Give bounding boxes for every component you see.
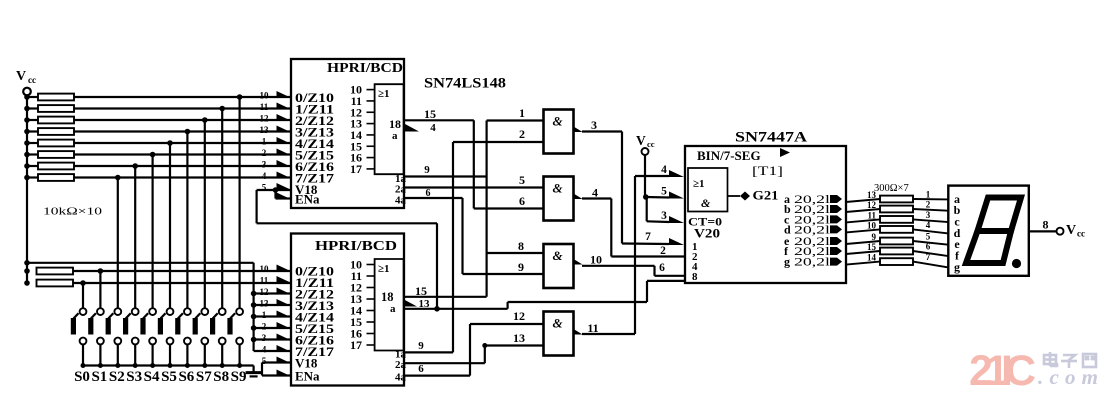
IC U1 SN74LS148 outline <box>291 59 404 208</box>
svg-text:1: 1 <box>262 310 267 320</box>
wire G1 output <box>582 130 622 132</box>
wire U1 2a to G2.1 <box>405 186 544 188</box>
svg-text:V: V <box>1066 223 1076 238</box>
U3 output d flag <box>830 225 842 233</box>
node pullup junction <box>251 325 257 331</box>
svg-text:15: 15 <box>424 107 436 121</box>
pin U1 V18 wedge <box>277 183 292 190</box>
wire p4 riser from G4 <box>634 176 636 334</box>
svg-text:9: 9 <box>872 232 877 242</box>
resistor Rs3 (300) <box>880 216 913 223</box>
svg-text:20,2l: 20,2l <box>794 255 831 269</box>
pin U3 5 wedge <box>669 192 684 199</box>
svg-text:6: 6 <box>926 242 931 252</box>
pin U1 6/Z16 wedge <box>277 160 292 167</box>
svg-text:11: 11 <box>587 321 598 335</box>
node tap2 <box>219 106 225 112</box>
svg-text:S7: S7 <box>196 369 212 385</box>
node S4 bus junction <box>150 363 155 368</box>
wire U2 ENa hook <box>262 374 291 376</box>
resistor R5 (10k) <box>27 142 38 144</box>
IC U3 SN7447A outline <box>685 146 846 283</box>
wire ENa loop down <box>256 190 258 223</box>
svg-text:11: 11 <box>260 276 269 286</box>
pin U3 4 wedge <box>669 170 684 177</box>
wire U2 18 output <box>405 296 487 298</box>
resistor Rs6 (300) <box>880 248 913 255</box>
svg-text:&: & <box>553 114 563 129</box>
pin U1 1/Z11 wedge <box>277 103 292 110</box>
svg-text:S5: S5 <box>161 369 177 385</box>
pin U2 5/Z15 wedge <box>277 322 292 329</box>
svg-text:13: 13 <box>260 125 270 135</box>
U3 output f flag <box>830 247 842 255</box>
node tap8 <box>115 175 121 181</box>
svg-text:18: 18 <box>389 117 401 131</box>
svg-text:V: V <box>636 133 646 148</box>
wire 4a down <box>461 198 463 274</box>
svg-text:SN7447A: SN7447A <box>735 130 808 146</box>
pin U1 3/Z13 wedge <box>277 126 292 133</box>
AND gate G2 body <box>544 177 574 221</box>
wire tap3 to switch S7 <box>204 120 206 308</box>
wire tap5 to switch S5 <box>169 143 171 308</box>
svg-text:BIN/7-SEG: BIN/7-SEG <box>697 148 761 163</box>
node tap5 <box>167 140 173 146</box>
svg-text:S2: S2 <box>109 369 125 385</box>
node S2 bus junction <box>115 363 120 368</box>
digit 8 lower loop (segments g,c,d,e) <box>966 231 1011 263</box>
wire 1a to G1.1 <box>487 119 544 121</box>
pin U2 ENa wedge <box>277 370 292 377</box>
wire Vcc left bus <box>26 95 28 286</box>
svg-text:1: 1 <box>262 137 267 147</box>
svg-text:3: 3 <box>262 160 267 170</box>
svg-text:S8: S8 <box>213 369 229 385</box>
wire tap4 to switch S6 <box>186 132 188 309</box>
svg-text:6: 6 <box>519 194 525 208</box>
U3 output c flag <box>830 215 842 223</box>
wire resistor to display f <box>913 251 948 256</box>
svg-text:5: 5 <box>661 186 667 198</box>
svg-text:a: a <box>390 303 396 315</box>
wire resistor to display d <box>913 229 948 233</box>
svg-text:4: 4 <box>262 171 267 181</box>
wire resistor to display b <box>913 209 948 211</box>
svg-text:&: & <box>553 181 563 196</box>
wire U2-a jog <box>507 302 509 309</box>
pin U1 7/Z17 wedge <box>277 172 292 179</box>
wire riser x453 <box>452 142 454 352</box>
resistor R10 (10k) <box>37 280 74 287</box>
svg-text:a: a <box>392 130 398 142</box>
wire R4 to encoder input 3 <box>74 130 291 132</box>
svg-text:≥1: ≥1 <box>693 178 705 190</box>
node pullup junction <box>251 314 257 320</box>
wire 4a to G3.2 <box>463 273 544 275</box>
pin U1 4/Z14 wedge <box>277 137 292 144</box>
wire pullup to encoder2 pin <box>254 327 291 329</box>
svg-text:8: 8 <box>518 239 524 253</box>
svg-text:10: 10 <box>260 264 270 274</box>
wire net15 to G2.2 <box>474 207 544 209</box>
wire U2-2a up <box>484 346 486 364</box>
svg-text:cc: cc <box>1077 229 1085 239</box>
pin U1 0/Z10 wedge <box>277 91 292 98</box>
switch S5 <box>167 308 174 315</box>
svg-text:13: 13 <box>513 331 525 345</box>
svg-text:7: 7 <box>645 231 651 243</box>
svg-text:SN74LS148: SN74LS148 <box>424 76 506 92</box>
node bus-R2 <box>24 106 30 112</box>
wire switch common bus <box>83 364 254 366</box>
resistor Rs5 (300) <box>880 238 913 245</box>
wire pullup to encoder2 pin <box>254 338 291 340</box>
svg-text:11: 11 <box>867 210 876 220</box>
switch S4 <box>149 308 156 315</box>
wire pullup to encoder2 pin <box>254 315 291 317</box>
wire resistor to display e <box>913 241 948 245</box>
node S0 bus junction <box>81 363 86 368</box>
AND gate G2 output wedge <box>574 194 583 200</box>
wire U2 2a output <box>405 362 485 364</box>
wire G2out down <box>610 199 612 257</box>
wire U3 g to resistor <box>846 262 880 265</box>
svg-text:10: 10 <box>260 91 270 101</box>
svg-text:ENa: ENa <box>295 369 320 384</box>
switch S7 <box>201 308 208 315</box>
svg-text:&: & <box>701 196 711 210</box>
U3 output e flag <box>830 237 842 245</box>
svg-text:17: 17 <box>350 338 362 352</box>
wire Vcc middle down <box>644 155 646 197</box>
node bus-R5 <box>24 140 30 146</box>
svg-text:2a: 2a <box>395 359 407 371</box>
wire tap1 to switch S9 <box>239 97 241 308</box>
wire pullup to encoder2 pin <box>254 304 291 306</box>
wire U3 a to resistor <box>846 199 880 202</box>
wire R8 to encoder input 7 <box>74 176 291 178</box>
svg-text:3: 3 <box>661 210 667 222</box>
node S8 bus junction <box>220 363 225 368</box>
wire U3 d to resistor <box>846 229 880 232</box>
wire G4 output <box>582 333 635 335</box>
wire tap2 to switch S8 <box>221 109 223 309</box>
resistor R8 (10k) <box>27 176 38 178</box>
svg-text:2: 2 <box>519 127 525 141</box>
svg-text:&: & <box>553 316 563 331</box>
svg-text:&: & <box>553 248 563 263</box>
wire encoder2 pullup bus vertical <box>253 263 255 351</box>
U3 title flag <box>780 148 790 157</box>
svg-text:4: 4 <box>926 220 931 230</box>
svg-text:2: 2 <box>262 322 267 332</box>
wire U2-a across <box>508 301 647 303</box>
wire U2 V18 hook <box>262 361 291 363</box>
wire p3 <box>647 220 669 223</box>
svg-text:8: 8 <box>692 271 698 283</box>
node tap S1 <box>98 268 104 274</box>
svg-text:3: 3 <box>262 333 267 343</box>
node bus-R4 <box>24 129 30 135</box>
resistor Rs4 (300) <box>880 226 913 233</box>
resistor R9 (10k) <box>37 268 74 275</box>
wire R9 to encoder2 input 0 <box>73 270 291 272</box>
switch S2 <box>114 308 121 315</box>
svg-text:≥1: ≥1 <box>378 88 390 100</box>
node S6 bus junction <box>185 363 190 368</box>
node tap6 <box>150 152 156 158</box>
resistor Rs2 (300) <box>880 206 913 213</box>
switch S8 <box>219 308 226 315</box>
wire riser x486 <box>486 121 488 297</box>
svg-text:4a: 4a <box>395 372 407 384</box>
node bus-Vcc-row <box>24 260 30 266</box>
wire U2 4a output <box>405 375 470 377</box>
node bus-R9 <box>24 268 30 274</box>
wire pullup to encoder2 pin <box>254 350 291 352</box>
pin U3 3 wedge <box>669 216 684 223</box>
svg-text:6: 6 <box>426 188 431 199</box>
wire U3 c to resistor <box>846 219 880 222</box>
svg-text:[T1]: [T1] <box>752 164 783 178</box>
svg-text:5: 5 <box>926 232 931 242</box>
svg-text:10: 10 <box>590 253 602 267</box>
svg-text:2: 2 <box>660 245 666 257</box>
node bus-R7 <box>24 163 30 169</box>
wire U1 V18 feed <box>257 189 291 191</box>
svg-text:S9: S9 <box>231 369 247 385</box>
svg-text:15: 15 <box>415 284 427 298</box>
wire to G3.1 <box>487 252 544 254</box>
svg-text:4: 4 <box>430 122 436 134</box>
svg-text:9: 9 <box>418 340 424 352</box>
node tap4 <box>185 129 191 135</box>
wire net-a riser <box>646 281 648 302</box>
svg-text:1: 1 <box>519 106 525 120</box>
U1 output 18/a wedge <box>405 124 419 132</box>
pin U2 7/Z17 wedge <box>277 345 292 352</box>
wire R10 to encoder2 input 1 <box>73 282 291 284</box>
wire to pin4w <box>655 275 686 277</box>
wire V18 to ENa hook <box>274 190 276 199</box>
wire net15 down <box>473 120 475 208</box>
wire tap7 to switch S3 <box>134 166 136 308</box>
svg-text:9: 9 <box>518 260 524 274</box>
node V18 junction <box>273 187 279 193</box>
wire U1 1a output <box>405 175 487 177</box>
svg-text:12: 12 <box>513 309 525 323</box>
svg-text:14: 14 <box>867 253 877 263</box>
wire U1 4a output <box>405 197 463 199</box>
svg-text:cc: cc <box>28 75 36 85</box>
resistor R1 (10k) <box>27 96 38 98</box>
wire to G1.2 <box>453 141 544 143</box>
svg-text:13: 13 <box>260 299 270 309</box>
svg-text:10kΩ×10: 10kΩ×10 <box>43 206 103 218</box>
U2 priority section inner box <box>375 259 404 351</box>
decimal point <box>1012 259 1021 268</box>
wire Vcc row to encoder2 pullup bus <box>27 262 254 264</box>
wire ENa loop across <box>257 222 437 224</box>
pin U2 2/Z12 wedge <box>277 288 292 295</box>
digit 8 upper loop (segments a,b,g,f) <box>978 198 1022 232</box>
svg-text:17: 17 <box>350 162 362 176</box>
node bus-R1 <box>24 94 30 100</box>
switch S1 <box>97 308 104 315</box>
wire to pin2 <box>611 255 685 257</box>
node S7 bus junction <box>202 363 207 368</box>
svg-text:cc: cc <box>647 139 655 149</box>
wire R6 to encoder input 5 <box>74 153 291 155</box>
wire U3 e to resistor <box>846 241 880 244</box>
svg-text:3: 3 <box>926 210 931 220</box>
wire bus to ground <box>253 366 255 373</box>
wire R2 to encoder input 1 <box>74 107 291 109</box>
svg-text:4: 4 <box>262 345 267 355</box>
wire ENa loop to U2 output net <box>436 223 438 308</box>
wire to G4.2 <box>485 344 544 346</box>
AND gate G3 output wedge <box>574 259 583 265</box>
svg-text:≥1: ≥1 <box>378 263 390 275</box>
resistor R3 (10k) <box>27 119 38 121</box>
svg-text:S1: S1 <box>91 369 107 385</box>
svg-text:4: 4 <box>592 186 598 200</box>
IC U2 SN74LS148 outline <box>291 234 404 386</box>
wire U2 1a output <box>405 351 453 353</box>
switch S0 <box>80 308 87 315</box>
svg-text:HPRI/BCD: HPRI/BCD <box>315 239 397 254</box>
pin U2 6/Z16 wedge <box>277 334 292 341</box>
svg-text:V: V <box>16 69 26 84</box>
wire G1out down <box>621 132 623 244</box>
node pullup junction <box>251 291 257 297</box>
svg-text:V20: V20 <box>694 227 720 241</box>
wire pullup to encoder2 pin <box>254 292 291 294</box>
svg-text:9: 9 <box>424 164 430 176</box>
svg-text:7: 7 <box>926 252 931 262</box>
pin U2 1/Z11 wedge <box>277 276 292 283</box>
wire resistor to display c <box>913 219 948 222</box>
U3 output a flag <box>830 195 842 203</box>
wire U3 b to resistor <box>846 209 880 212</box>
pin U2 V18 wedge <box>277 357 292 364</box>
wire net15 U1 18a output <box>405 119 474 121</box>
wire R5 to encoder input 4 <box>74 142 291 144</box>
svg-text:2: 2 <box>926 200 931 210</box>
svg-text:300Ω×7: 300Ω×7 <box>874 183 909 194</box>
svg-text:S4: S4 <box>144 369 160 385</box>
resistor R6 (10k) <box>27 153 38 155</box>
wire R7 to encoder input 6 <box>74 165 291 167</box>
resistor R4 (10k) <box>27 130 38 132</box>
U2 output 18/a wedge <box>403 299 417 307</box>
wire p5 to p3 <box>646 197 648 221</box>
U3 output g flag <box>830 258 842 266</box>
svg-text:3: 3 <box>591 118 597 132</box>
svg-text:2: 2 <box>262 148 267 158</box>
svg-text:12: 12 <box>867 200 877 210</box>
7-segment display outline <box>948 186 1029 276</box>
node S3 bus junction <box>133 363 138 368</box>
U1 priority section inner box <box>375 84 404 174</box>
wire tap8 to switch S2 <box>117 178 119 309</box>
AND gate G4 output wedge <box>574 329 583 335</box>
svg-text:12: 12 <box>260 114 270 124</box>
node tap7 <box>132 163 138 169</box>
node tap1 <box>237 94 243 100</box>
wire G2 output <box>582 197 611 199</box>
svg-text:HPRI/BCD: HPRI/BCD <box>327 61 403 76</box>
wire to pin8w <box>647 280 685 282</box>
svg-text:4: 4 <box>661 164 667 176</box>
wire G3out jog <box>653 266 655 276</box>
wire U2-4a up <box>469 324 471 376</box>
svg-text:13: 13 <box>867 190 877 200</box>
switch S3 <box>132 308 139 315</box>
svg-text:5: 5 <box>519 173 525 187</box>
pin U3 7 wedge <box>669 238 684 245</box>
svg-text:4a: 4a <box>395 195 407 207</box>
resistor Rs7 (300) <box>880 258 913 265</box>
pin U1 5/Z15 wedge <box>277 149 292 156</box>
svg-text:6: 6 <box>659 262 665 274</box>
svg-text:18: 18 <box>381 290 394 304</box>
node bus-R6 <box>24 152 30 158</box>
node tap3 <box>202 117 208 123</box>
wire R1 to encoder input 0 <box>74 96 291 98</box>
wire R3 to encoder input 2 <box>74 119 291 121</box>
wire resistor to display g <box>913 262 948 268</box>
node pullup junction <box>251 302 257 308</box>
node Vcc-p5 <box>643 194 649 200</box>
resistor R7 (10k) <box>27 165 38 167</box>
Vcc supply terminal (right) <box>1057 228 1064 235</box>
switch S9 <box>236 308 243 315</box>
svg-text:12: 12 <box>260 287 270 297</box>
svg-text:G21: G21 <box>753 188 779 203</box>
wire p5 <box>646 196 669 199</box>
node S1 bus junction <box>98 363 103 368</box>
wire to G4.1 <box>470 323 544 325</box>
wire tap6 to switch S4 <box>152 155 154 309</box>
node bus-R8 <box>24 175 30 181</box>
node bus-R10 <box>24 280 30 286</box>
svg-text:10: 10 <box>867 220 877 230</box>
svg-text:15: 15 <box>867 242 877 252</box>
svg-text:g: g <box>954 260 960 274</box>
AND gate G1 output wedge <box>574 127 583 133</box>
node tap S0 <box>80 280 86 286</box>
node 13 branch <box>482 343 487 348</box>
resistor Rs1 (300) <box>880 196 913 203</box>
wire to pin7 <box>622 242 669 245</box>
svg-text:S6: S6 <box>178 369 194 385</box>
wire tap to switch S1 <box>99 271 101 308</box>
wire U2 a output <box>405 308 508 310</box>
node S9 bus junction <box>237 363 242 368</box>
pin U1 ENa wedge <box>277 193 292 200</box>
watermark chinese 电子网 <box>1044 352 1096 368</box>
svg-text:8: 8 <box>1043 218 1049 232</box>
wire U3 f to resistor <box>846 251 880 254</box>
AND gate G4 body <box>544 312 574 356</box>
svg-text:g: g <box>784 255 790 269</box>
node pullup junction <box>251 337 257 343</box>
svg-text:1: 1 <box>926 190 931 200</box>
AND gate G3 body <box>544 244 574 288</box>
svg-text:11: 11 <box>260 102 269 112</box>
